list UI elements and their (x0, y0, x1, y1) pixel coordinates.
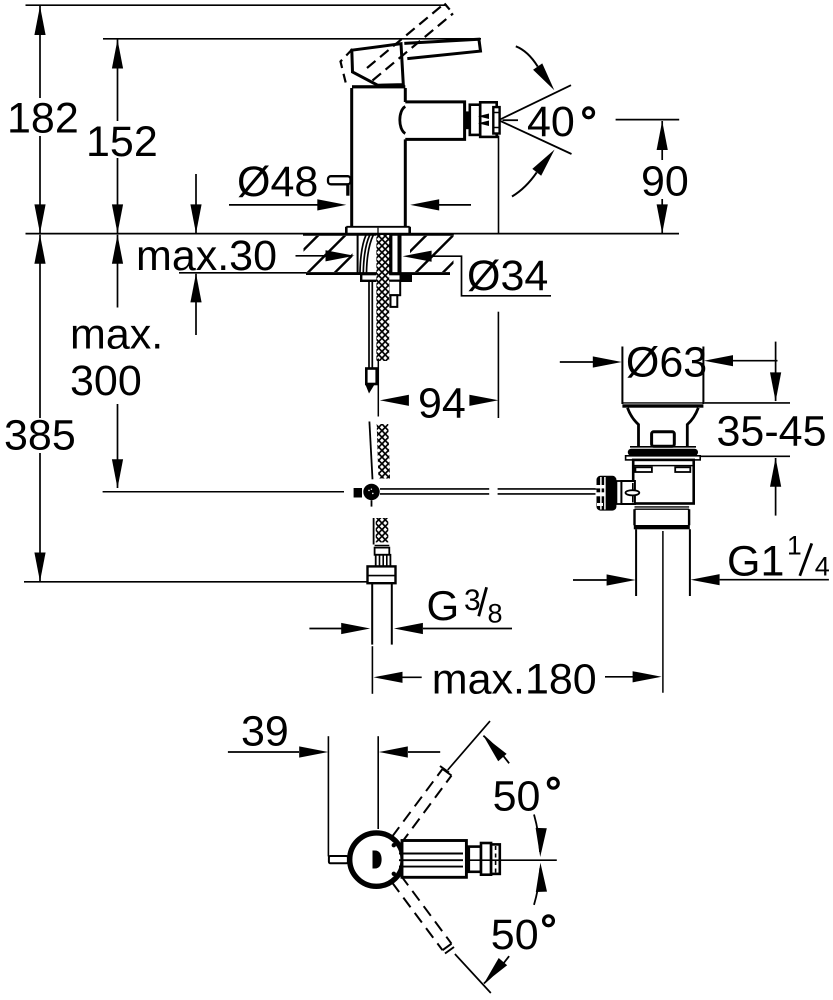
dimension max.180 (374, 656, 662, 704)
svg-text:1: 1 (787, 530, 802, 560)
dimension max.300 (70, 235, 163, 489)
dimension D63 (560, 339, 778, 387)
clamp stem (616, 481, 621, 504)
svg-text:90: 90 (641, 158, 689, 206)
locknut under deck (361, 273, 411, 307)
junction ball (rod pivot) (363, 484, 379, 507)
below-deck shank, hoses in deck cut (358, 235, 402, 273)
handle cap (352, 44, 404, 85)
aerator (466, 102, 500, 137)
pull rod below deck (365, 281, 376, 394)
plan: upper angle extension line (448, 721, 490, 770)
svg-text:max.: max. (70, 311, 163, 359)
svg-text:40: 40 (527, 98, 575, 146)
dimension 35-45 (701, 342, 826, 516)
pull rod boss (652, 432, 675, 447)
braided hose below deck (crosshatch) (376, 235, 389, 361)
pop-up rod knob at rear of body (328, 176, 351, 196)
svg-text:Ø63: Ø63 (626, 339, 707, 387)
deck section (hatched) (303, 234, 454, 273)
dimension G3/8 (309, 582, 512, 634)
dimension D34 leader (296, 250, 552, 300)
dimension 94 (380, 312, 499, 428)
40 degree arc arrows (512, 46, 559, 196)
dimension G1 1/4 (573, 530, 830, 585)
clamp body (621, 481, 635, 504)
dimension 39 (228, 708, 440, 857)
O-ring seal (628, 449, 698, 456)
vertical pull rod in clamp (632, 483, 634, 503)
plan: lower angle extension line (455, 954, 491, 993)
svg-text:3: 3 (464, 584, 481, 617)
horizontal pop-up rod to drain (380, 489, 597, 494)
G3/8 connection pipe (372, 583, 392, 644)
drain valve body (633, 460, 694, 504)
aerator extension line down (498, 136, 500, 234)
seal ledge (630, 446, 696, 448)
plan: centerline (466, 859, 557, 861)
plan: lever dashed (lower 50deg) (392, 876, 454, 954)
faucet base plate (346, 227, 409, 234)
max300 pointer line to rod level (103, 491, 344, 493)
dimension D48 (229, 158, 471, 211)
hose end connector / G3/8 nut (368, 545, 396, 583)
svg-text:50: 50 (493, 773, 541, 821)
extension line top (182 max height) (26, 4, 448, 6)
svg-text:50: 50 (491, 911, 539, 959)
svg-text:385: 385 (4, 412, 76, 460)
plan: rear rod pin (329, 856, 348, 863)
dimension 182 (7, 6, 79, 233)
spout (400, 102, 465, 139)
50deg upper arc (479, 732, 558, 857)
braided hose segment 2 (369, 422, 390, 480)
centerline below hose (377, 359, 379, 417)
drain centerline (662, 531, 664, 693)
drain body lower section (634, 507, 690, 529)
dimension 90 (616, 120, 689, 234)
drain flange (D63) (622, 347, 703, 408)
plan: aerator (469, 843, 500, 875)
svg-text:35-45: 35-45 (717, 408, 827, 456)
plan: lever dashed (upper 50deg) (392, 766, 452, 844)
svg-text:94: 94 (418, 380, 466, 428)
svg-text:152: 152 (86, 118, 158, 166)
extension line lever top (152) (103, 38, 481, 40)
svg-text:G1: G1 (727, 538, 784, 586)
svg-text:Ø34: Ø34 (467, 252, 548, 300)
drain funnel neck (628, 408, 699, 447)
rod fitting left of ball (354, 488, 362, 498)
svg-text:G: G (427, 582, 460, 629)
faucet body (352, 85, 406, 227)
lever handle (dashed raised position) (341, 4, 454, 89)
plan: faucet body circle (350, 833, 403, 886)
svg-text:Ø48: Ø48 (237, 158, 318, 206)
plan: screw dots (392, 843, 396, 847)
svg-text:182: 182 (7, 95, 79, 143)
svg-text:39: 39 (241, 708, 289, 756)
dimension max.30 (deck thickness) (136, 174, 306, 335)
deck surface line (26, 233, 680, 235)
drain tailpipe G1 1/4 (636, 529, 690, 596)
plan: rod knob (D shape) (373, 851, 382, 869)
braided hose segment 3 (374, 518, 389, 545)
svg-text:4: 4 (815, 552, 830, 582)
plan: spout (399, 841, 466, 878)
dimension 385 (4, 235, 368, 582)
svg-text:8: 8 (488, 599, 503, 629)
40 degree fan lines (500, 85, 572, 154)
washer (626, 456, 701, 460)
50deg lower arc (480, 863, 554, 988)
dimension 152 (86, 40, 158, 234)
svg-text:300: 300 (70, 357, 142, 405)
rod clamp knob (596, 476, 617, 511)
svg-text:max.180: max.180 (432, 656, 597, 704)
rod end oval pin (626, 490, 640, 495)
lever handle (solid) (404, 39, 481, 59)
